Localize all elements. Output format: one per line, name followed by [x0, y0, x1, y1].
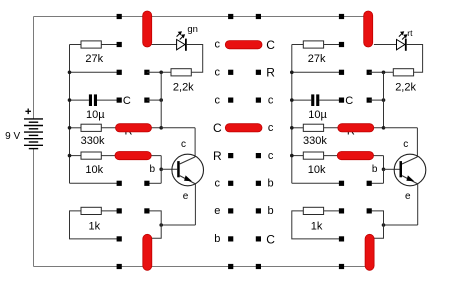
node row3 mid (right stage): [382, 98, 386, 102]
LED D1 cathode bar (left stage): [185, 39, 187, 51]
socket square row2 colD: [256, 70, 261, 75]
node row4 mid (left stage): [159, 126, 163, 130]
wire: 2,2k to LED corner (left stage): [187, 45, 203, 73]
svg-text:e: e: [214, 205, 220, 217]
svg-text:c: c: [268, 122, 274, 134]
wire: 1k to contact (right stage): [324, 210, 342, 212]
contact square row2 colA (left stage): [117, 70, 122, 75]
svg-text:e: e: [183, 191, 189, 202]
resistor 10k (left stage): [81, 152, 101, 159]
svg-text:b: b: [150, 164, 156, 175]
wire: 2,2k to LED corner (right stage): [407, 45, 423, 73]
socket square top rail colC: [228, 14, 233, 19]
wire: contact row3 to mid (right stage): [369, 99, 383, 101]
resistor 330k (left stage): [81, 124, 101, 131]
socket square row7 colC: [228, 208, 233, 213]
wire: rail to capacitor (left stage): [70, 99, 89, 101]
wire: rail to resistor row1 (left stage): [70, 44, 82, 46]
svg-text:b: b: [372, 164, 378, 175]
contact square row2 colB (left stage): [144, 70, 149, 75]
contact square bottom rail (right stage): [339, 264, 344, 269]
resistor 2,2k (right stage): [393, 69, 413, 76]
LED light rays (right stage): [399, 32, 407, 40]
wire: mid vertical row2-row4 (left stage): [160, 72, 162, 128]
node on rail row4 (left stage): [68, 126, 72, 130]
wire: base-divider to collector (left stage): [161, 127, 195, 129]
wire: 330k to mid node (right stage): [324, 127, 384, 129]
svg-text:10k: 10k: [85, 164, 103, 176]
socket square bottom rail colD: [256, 264, 261, 269]
resistor 10k (right stage): [303, 152, 323, 159]
contact square row6 colB (right stage): [367, 181, 372, 186]
svg-text:b: b: [268, 178, 274, 190]
contact square top rail (right stage): [339, 14, 344, 19]
red jumper middle row1: [225, 41, 262, 49]
socket square top rail colD: [256, 14, 261, 19]
red jumper row5 (left stage): [115, 152, 151, 160]
resistor 2,2k (left stage): [171, 69, 191, 76]
wire: base node to transistor (right stage): [384, 168, 400, 170]
wire under bottom jumper (right stage): [369, 238, 371, 266]
wire under bottom jumper (left stage): [146, 238, 148, 266]
node on rail row4 (right stage): [290, 126, 294, 130]
resistor 27k (left stage): [81, 41, 101, 48]
transistor emitter arrow (right stage): [406, 175, 414, 181]
svg-text:c: c: [215, 178, 221, 190]
wire: left supply rail (right stage): [291, 45, 293, 184]
LED D1 cathode bar (right stage): [405, 39, 407, 51]
transistor base bar (right stage): [400, 161, 403, 177]
wire: rail to contact row2 (left stage): [70, 71, 120, 73]
red jumper middle row4: [225, 124, 262, 132]
wire: corner down to base node (left stage): [160, 156, 162, 170]
node on rail row2 (left stage): [68, 71, 72, 75]
capacitor 10u plates (left stage): [89, 94, 97, 106]
contact square row2 colA (right stage): [339, 70, 344, 75]
wire: 1k stub (left stage): [70, 211, 120, 239]
red jumper top vertical (right stage): [364, 11, 373, 47]
svg-text:R: R: [213, 149, 222, 163]
contact square row7 colA (left stage): [117, 208, 122, 213]
svg-text:27k: 27k: [85, 53, 103, 65]
wire: base node down (right stage): [383, 169, 385, 183]
wire: rail to 10k (left stage): [70, 155, 82, 157]
wire: emitter across (left stage): [161, 224, 195, 226]
wire: base node to transistor (left stage): [161, 168, 177, 170]
battery + polarity mark: [25, 109, 31, 115]
contact square row7 colB (right stage): [367, 208, 372, 213]
red jumper bottom vertical (right stage): [365, 234, 374, 270]
socket square row2 colC: [228, 70, 233, 75]
contact square top rail (left stage): [117, 14, 122, 19]
wire: row7 contact to emitter node (right stage): [369, 211, 383, 238]
wire: to contact row6 (right stage): [369, 182, 383, 184]
wire: jumper to LED anode (right stage): [374, 44, 397, 46]
socket square row6 colD: [256, 181, 261, 186]
node row2 mid (left stage): [159, 71, 163, 75]
wire: 27k to contact (right stage): [324, 44, 342, 46]
wire: rail to resistor row1 (right stage): [292, 44, 304, 46]
wire: positive top rail: [34, 16, 366, 18]
svg-text:C: C: [266, 232, 275, 246]
wire: 10k to corner (right stage): [324, 155, 384, 157]
socket square row8 colC: [228, 236, 233, 241]
wire: rail bottom to contact row6 (right stage): [292, 182, 342, 184]
svg-text:c: c: [268, 150, 274, 162]
transistor base bar (left stage): [177, 161, 180, 177]
wire: 27k to contact (left stage): [101, 44, 119, 46]
red jumper bottom vertical (left stage): [143, 234, 152, 270]
node on rail row5 (left stage): [68, 154, 72, 158]
svg-text:10k: 10k: [308, 164, 326, 176]
wire: emitter across (right stage): [384, 224, 418, 226]
contact square row1 colA (right stage): [339, 42, 344, 47]
node emitter junction (left stage): [159, 223, 163, 227]
wire under top jumper (right stage): [367, 17, 369, 45]
socket square bottom rail colC: [228, 264, 233, 269]
wire: rail to capacitor (right stage): [292, 99, 311, 101]
svg-text:10µ: 10µ: [86, 109, 105, 121]
socket square row7 colD: [256, 208, 261, 213]
node emitter junction (right stage): [382, 223, 386, 227]
svg-text:b: b: [268, 205, 274, 217]
svg-text:2,2k: 2,2k: [395, 81, 416, 93]
transistor emitter stroke (left stage): [180, 176, 196, 184]
svg-text:c: c: [181, 139, 186, 150]
red jumper row4 (right stage): [338, 124, 374, 132]
node on rail row3 (left stage): [68, 98, 72, 102]
node on rail row5 (right stage): [290, 154, 294, 158]
svg-text:C: C: [213, 121, 222, 135]
wire: base node down (left stage): [160, 169, 162, 183]
svg-text:10µ: 10µ: [308, 109, 327, 121]
contact square row6 colA (left stage): [117, 181, 122, 186]
contact square row3 colB (right stage): [367, 98, 372, 103]
svg-text:1k: 1k: [88, 220, 100, 232]
socket square row8 colD: [256, 236, 261, 241]
contact square row3 colA (left stage): [117, 98, 122, 103]
wire: negative bottom rail: [34, 266, 367, 268]
node base junction (right stage): [382, 168, 386, 172]
transistor Q circle (right stage): [394, 154, 426, 186]
wire: to contact row6 (left stage): [147, 182, 161, 184]
wire: row7 contact to emitter node (left stage): [147, 211, 161, 238]
wire: rail to 10k (right stage): [292, 155, 304, 157]
contact square row1 colA (left stage): [117, 42, 122, 47]
wire: jumper to LED anode (left stage): [152, 44, 177, 46]
svg-text:R: R: [266, 66, 275, 80]
wire: contact row3 to mid (left stage): [147, 99, 161, 101]
wire under top jumper (left stage): [146, 17, 148, 45]
wire: rail bottom to contact row6 (left stage): [70, 182, 120, 184]
contact square bottom rail (left stage): [117, 264, 122, 269]
wire: corner down to base node (right stage): [383, 156, 385, 170]
wire: emitter drop (left stage): [194, 184, 196, 225]
wire: 330k to mid node (left stage): [101, 127, 161, 129]
capacitor 10u plates (right stage): [311, 94, 319, 106]
transistor emitter stroke (right stage): [402, 176, 418, 184]
wire: rail to 330k (right stage): [292, 127, 304, 129]
svg-text:e: e: [405, 191, 411, 202]
node row3 mid (left stage): [159, 98, 163, 102]
socket square row3 colD: [256, 98, 261, 103]
wire: mid vertical row2-row4 (right stage): [383, 72, 385, 128]
svg-text:c: c: [215, 39, 221, 51]
resistor 1k (right stage): [303, 207, 323, 214]
wire: collector drop (right stage): [416, 128, 418, 157]
contact square row7 colA (right stage): [339, 208, 344, 213]
wire: contact to 2,2k (left stage): [147, 71, 171, 73]
contact square row3 colB (left stage): [144, 98, 149, 103]
resistor 330k (right stage): [303, 124, 323, 131]
svg-text:C: C: [345, 95, 353, 107]
contact square row8 colA (right stage): [339, 236, 344, 241]
svg-text:C: C: [123, 95, 131, 107]
contact square row2 colB (right stage): [367, 70, 372, 75]
wire: collector drop (left stage): [194, 128, 196, 157]
wire: 10k to corner (left stage): [101, 155, 161, 157]
red jumper row5 (right stage): [337, 152, 373, 160]
transistor emitter arrow (left stage): [184, 175, 192, 181]
svg-text:330k: 330k: [303, 135, 327, 147]
svg-text:C: C: [266, 38, 275, 52]
node row2 mid (right stage): [382, 71, 386, 75]
node row4 mid (right stage): [382, 126, 386, 130]
node on rail row3 (right stage): [290, 98, 294, 102]
socket square row6 colC: [228, 181, 233, 186]
node on rail row2 (right stage): [290, 71, 294, 75]
wire: contact to 2,2k (right stage): [369, 71, 393, 73]
wire: base-divider to collector (right stage): [384, 127, 418, 129]
svg-text:27k: 27k: [308, 53, 326, 65]
transistor Q circle (left stage): [172, 154, 204, 186]
red jumper top vertical (left stage): [143, 11, 152, 47]
LED light rays (left stage): [177, 32, 185, 40]
wire: battery + lead: [33, 17, 35, 120]
svg-text:c: c: [215, 94, 221, 106]
svg-text:330k: 330k: [81, 135, 105, 147]
red jumper row4 (left stage): [116, 124, 152, 132]
socket square row5 colC: [228, 153, 233, 158]
svg-text:c: c: [268, 94, 274, 106]
wire: 1k to contact (left stage): [101, 210, 119, 212]
contact square row6 colA (right stage): [339, 181, 344, 186]
socket square row3 colC: [228, 98, 233, 103]
contact square row8 colA (left stage): [117, 236, 122, 241]
svg-text:c: c: [215, 67, 221, 79]
contact square row6 colB (left stage): [144, 181, 149, 186]
svg-text:gn: gn: [187, 24, 198, 35]
svg-text:1k: 1k: [311, 220, 323, 232]
resistor 27k (right stage): [303, 41, 323, 48]
svg-text:b: b: [214, 233, 220, 245]
wire: battery - lead: [33, 149, 35, 267]
resistor 1k (left stage): [81, 207, 101, 214]
transistor collector stroke (left stage): [180, 157, 195, 164]
wire: emitter drop (right stage): [417, 184, 419, 225]
LED D1 triangle (right stage): [397, 40, 405, 50]
svg-text:rt: rt: [407, 28, 413, 38]
wire: rail to contact row2 (right stage): [292, 71, 342, 73]
LED D1 triangle (left stage): [177, 40, 185, 50]
contact square row3 colA (right stage): [339, 98, 344, 103]
wire: capacitor to contact (right stage): [319, 99, 341, 101]
wire: rail to 330k (left stage): [70, 127, 82, 129]
svg-text:9 V: 9 V: [5, 131, 20, 142]
wire: capacitor to contact (left stage): [97, 99, 119, 101]
wire: 1k stub (right stage): [292, 211, 342, 239]
svg-text:c: c: [403, 139, 408, 150]
contact square row7 colB (left stage): [144, 208, 149, 213]
svg-text:2,2k: 2,2k: [173, 81, 194, 93]
battery B1 (9 V) plates: [24, 119, 43, 149]
transistor collector stroke (right stage): [402, 157, 417, 164]
node base junction (left stage): [159, 168, 163, 172]
wire: left supply rail (left stage): [69, 45, 71, 184]
socket square row5 colD: [256, 153, 261, 158]
